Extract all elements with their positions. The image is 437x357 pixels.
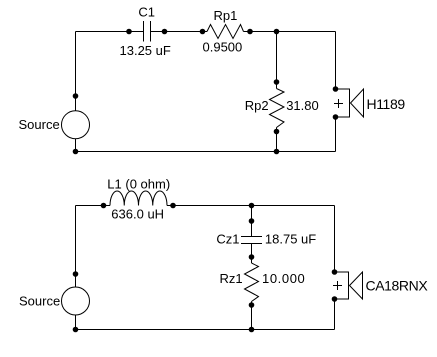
- label Rp1: [214, 8, 238, 23]
- source symbol circle (bottom Source): [62, 287, 90, 315]
- capacitor C1 plates: [144, 21, 151, 42]
- node dot source top terminal (bottom): [73, 271, 79, 277]
- svg-text:18.75 uF: 18.75 uF: [265, 231, 316, 246]
- svg-text:Cz1: Cz1: [216, 231, 239, 246]
- wire bottom horizontal (top circuit): [76, 151, 336, 153]
- node dot source bottom terminal: [73, 149, 79, 155]
- label Source (bottom): [19, 294, 60, 309]
- speaker H1189 cone triangle: [351, 89, 364, 117]
- speaker CA18RNX plus sign: [333, 281, 342, 290]
- source symbol circle (top Source): [62, 111, 90, 139]
- wire Rp2 branch upper vertical: [276, 32, 278, 89]
- resistor Rp2 top terminal dot: [274, 79, 280, 85]
- inductor L1 coil humps: [110, 191, 167, 206]
- value 18.75 uF: [265, 231, 316, 246]
- value 0.9500: [203, 40, 243, 55]
- svg-text:10.000: 10.000: [262, 271, 305, 286]
- svg-text:636.0 uH: 636.0 uH: [111, 207, 164, 222]
- wire speaker CA18RNX lower vertical: [334, 299, 336, 330]
- wire left vertical below source: [75, 139, 77, 152]
- inductor L1 left terminal dot: [101, 203, 107, 209]
- wire left vertical above source V1: [75, 32, 77, 112]
- svg-text:31.80: 31.80: [286, 98, 319, 113]
- label L1 (0 ohm): [107, 176, 170, 191]
- speaker CA18RNX minus terminal dot: [332, 296, 338, 302]
- wire Rz1 branch lower vertical: [251, 302, 253, 330]
- wire from L1 to top-right corner (bottom circuit): [167, 205, 335, 207]
- svg-text:Rz1: Rz1: [220, 271, 243, 286]
- wire from Rp1 to top-right corner: [244, 31, 336, 33]
- speaker CA18RNX cone triangle: [350, 272, 363, 299]
- wire bottom horizontal (bottom circuit): [76, 329, 335, 331]
- svg-text:Rp2: Rp2: [245, 98, 269, 113]
- capacitor Cz1 plates: [241, 237, 262, 244]
- label CA18RNX: [366, 278, 429, 294]
- capacitor C1 left terminal dot: [126, 29, 132, 35]
- node dot source top terminal: [73, 93, 79, 99]
- inductor L1 right terminal dot: [170, 203, 176, 209]
- resistor Rp1 zigzag: [207, 25, 244, 39]
- wire Cz1 branch upper vertical: [251, 206, 253, 237]
- label Source (top): [19, 117, 60, 132]
- svg-text:Rp1: Rp1: [214, 8, 238, 23]
- wire speaker CA18RNX upper vertical: [334, 206, 336, 273]
- wire between Cz1 and Rz1: [251, 244, 253, 264]
- resistor Rp2 bottom terminal dot: [274, 129, 280, 135]
- wire speaker H1189 upper vertical: [335, 32, 337, 90]
- svg-text:Source: Source: [19, 294, 60, 309]
- speaker H1189 minus terminal dot: [333, 114, 339, 120]
- wire left vertical below source (bottom circuit): [75, 315, 77, 330]
- svg-text:13.25 uF: 13.25 uF: [120, 43, 171, 58]
- svg-text:0.9500: 0.9500: [203, 40, 243, 55]
- label Cz1: [216, 231, 239, 246]
- speaker CA18RNX body: [335, 272, 349, 299]
- wire top-left horizontal (top circuit): [76, 31, 144, 33]
- svg-text:Source: Source: [19, 117, 60, 132]
- capacitor Cz1 top terminal dot: [249, 218, 255, 224]
- wire Rp2 branch lower vertical: [276, 128, 278, 152]
- wire speaker H1189 lower vertical: [335, 117, 337, 152]
- value 13.25 uF: [120, 43, 171, 58]
- value 10.000: [262, 271, 305, 286]
- label C1: [138, 5, 155, 20]
- label Rp2: [245, 98, 269, 113]
- speaker H1189 plus terminal dot: [333, 86, 339, 92]
- value 636.0 uH: [111, 207, 164, 222]
- capacitor C1 right terminal dot: [162, 29, 168, 35]
- label H1189: [367, 96, 406, 112]
- value 31.80: [286, 98, 319, 113]
- node dot junction top wire / Rp2 branch: [274, 29, 280, 35]
- svg-text:L1 (0 ohm): L1 (0 ohm): [107, 176, 170, 191]
- resistor Rp2 zigzag: [270, 89, 285, 128]
- speaker H1189 body: [336, 89, 350, 117]
- node dot source bottom terminal (bottom): [73, 327, 79, 333]
- svg-text:C1: C1: [138, 5, 155, 20]
- resistor Rp1 left terminal dot: [200, 29, 206, 35]
- label Rz1: [220, 271, 243, 286]
- resistor Rz1 zigzag: [245, 263, 259, 302]
- resistor Rz1 bottom terminal dot: [249, 302, 255, 308]
- wire top-left horizontal (bottom circuit): [76, 205, 111, 207]
- capacitor Cz1 bottom / resistor Rz1 top terminal dot: [249, 254, 255, 260]
- wire between C1 and Rp1: [151, 31, 208, 33]
- speaker H1189 plus sign: [334, 99, 343, 108]
- node dot junction bottom wire / Rp2 branch: [274, 149, 280, 155]
- speaker CA18RNX plus terminal dot: [332, 269, 338, 275]
- svg-text:CA18RNX: CA18RNX: [366, 278, 429, 294]
- node dot junction bottom wire / Rz1 branch: [249, 327, 255, 333]
- resistor Rp1 right terminal dot: [247, 29, 253, 35]
- svg-text:H1189: H1189: [367, 96, 406, 112]
- wire left vertical above source (bottom circuit): [75, 206, 77, 288]
- node dot junction top wire / Cz1 branch: [249, 203, 255, 209]
